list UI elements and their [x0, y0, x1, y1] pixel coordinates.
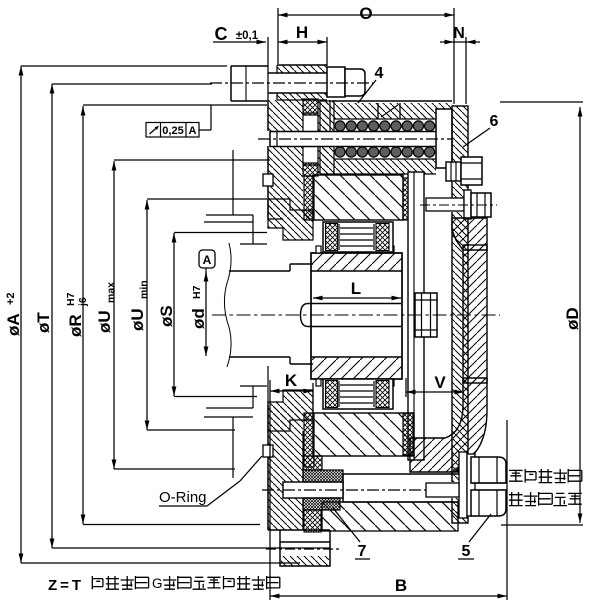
svg-text:min: min: [138, 280, 150, 299]
svg-text:4: 4: [375, 65, 384, 82]
bolt washer: [327, 67, 345, 97]
svg-text:øU: øU: [128, 308, 147, 331]
cover top flange hatched: [452, 218, 487, 250]
bolt top-right hex head: [471, 193, 491, 217]
o-ring groove top: [263, 174, 273, 186]
svg-text:L: L: [351, 279, 361, 298]
svg-text:øS: øS: [157, 305, 176, 327]
backstop rod main: [343, 474, 460, 502]
backstop rod left portion: [283, 482, 343, 498]
dim C: [213, 41, 266, 43]
svg-text:ød: ød: [189, 308, 208, 329]
pressure plate top block hatched: [313, 175, 403, 220]
backstop released text: [509, 492, 523, 506]
friction lining band upper: [303, 470, 343, 482]
block below rod hatched: [322, 502, 458, 531]
phantom max-shaft lines top: [206, 214, 253, 216]
spring rod centerline: [258, 138, 452, 140]
bolt G shank: [268, 72, 327, 74]
dim od: [205, 272, 207, 356]
dim B: [270, 595, 507, 597]
dim oA: [20, 66, 22, 563]
bolt top-right shank: [426, 198, 464, 211]
driven plate column: [408, 172, 424, 460]
friction strip left top: [304, 176, 314, 220]
phantom max-shaft lines bottom: [206, 407, 253, 409]
runout tolerance frame: [146, 123, 199, 138]
svg-text:7: 7: [358, 543, 367, 560]
svg-text:øA: øA: [4, 313, 23, 336]
seal block below rod: [304, 510, 321, 532]
svg-text:øT: øT: [34, 312, 53, 333]
flange upper block edges: [267, 103, 269, 131]
svg-text:Z = T: Z = T: [48, 577, 81, 594]
dim oT: [51, 84, 53, 548]
svg-text:O-Ring: O-Ring: [159, 489, 207, 506]
flange front face line: [267, 37, 269, 103]
hub retaining ticks: [316, 246, 321, 253]
dim oR: [82, 106, 84, 524]
cover vertical band hatched: [463, 245, 487, 383]
flange inner hub step bottom hatched: [268, 390, 313, 431]
backstop working text: [509, 470, 523, 481]
svg-text:max: max: [105, 282, 117, 303]
svg-text:G: G: [152, 576, 163, 591]
svg-text:+2: +2: [5, 292, 17, 305]
seal crosshatch mid: [303, 163, 318, 176]
needle bearing bottom: [323, 379, 393, 409]
right flange strip hatched: [452, 106, 468, 523]
svg-text:O: O: [359, 4, 372, 23]
dim N: [440, 41, 480, 43]
dim H: [278, 41, 327, 43]
dim V: [406, 391, 464, 393]
svg-text:5: 5: [462, 543, 471, 560]
backstop rod centerline: [262, 489, 505, 491]
disc centerline: [266, 548, 340, 550]
backstop hex working position: [471, 457, 506, 483]
adjuster nut: [446, 162, 461, 181]
needle bearing top: [323, 222, 393, 252]
hub bottom hatched band: [311, 357, 402, 379]
spring rod end diamond: [437, 136, 445, 143]
dim oUmax: [113, 161, 115, 469]
spring coils row 1: [335, 121, 446, 131]
friction strip left bottom: [304, 413, 314, 467]
dim oUmin: [146, 200, 148, 430]
backstop washer plates: [459, 452, 467, 518]
flange bottom step edges: [279, 530, 281, 542]
svg-text:H7: H7: [191, 285, 203, 299]
flange material over bolt hole: [277, 65, 327, 73]
svg-text:K: K: [285, 371, 298, 390]
dim oD: [579, 107, 581, 523]
svg-text:A: A: [189, 125, 197, 137]
svg-text:H: H: [296, 23, 308, 42]
keyway slot: [301, 304, 309, 327]
dim L: [313, 297, 401, 299]
bolt G head: [231, 65, 268, 67]
spring rod: [270, 132, 445, 147]
dim oS: [173, 233, 175, 396]
spring coils row 2: [335, 147, 446, 157]
svg-text:V: V: [434, 373, 446, 392]
right flange gaps: [451, 163, 469, 180]
cage left wall hatched: [320, 101, 334, 174]
svg-text:A: A: [203, 253, 212, 267]
backstop rod through flange: [426, 483, 459, 497]
svg-text:C: C: [215, 24, 228, 44]
hub top hatched band: [311, 253, 402, 271]
main centerline: [212, 314, 500, 316]
bolt nut: [345, 69, 365, 96]
o-ring groove bottom: [263, 445, 273, 457]
svg-text:H7: H7: [65, 292, 77, 306]
friction strip right top: [403, 178, 411, 220]
pin column white: [303, 113, 318, 165]
seal block bottom left: [303, 456, 322, 470]
dim K: [270, 390, 313, 392]
bolt hole disc bottom: [280, 542, 330, 566]
svg-text:±0,1: ±0,1: [236, 30, 259, 42]
cage top band hatched: [334, 103, 452, 119]
bolt top-right washer: [464, 190, 471, 219]
bolt top-right centerline: [420, 204, 497, 206]
cover bottom flange hatched: [410, 378, 487, 472]
svg-text:N: N: [453, 25, 465, 42]
bolt centerline: [210, 82, 373, 84]
flange inner hub step top hatched: [268, 199, 313, 240]
flange upper block hatched: [268, 100, 303, 131]
dim O: [278, 14, 454, 16]
backstop hex released position: [471, 490, 506, 516]
friction lining band lower: [303, 498, 340, 510]
hub outline: [311, 253, 402, 379]
shaft end hex bolt: [415, 293, 437, 337]
friction strip right bottom: [403, 413, 413, 455]
svg-text:0,25: 0,25: [162, 125, 183, 137]
svg-text:øU: øU: [95, 310, 114, 333]
shaft break line: [224, 243, 231, 367]
seal crosshatch top: [303, 99, 318, 115]
svg-text:øR: øR: [66, 314, 85, 337]
svg-text:øD: øD: [563, 307, 582, 330]
svg-text:B: B: [395, 576, 407, 595]
datum A box: [199, 250, 215, 268]
cage bottom band hatched: [334, 159, 436, 174]
adjuster knob: [461, 157, 482, 185]
svg-text:6: 6: [490, 113, 499, 130]
right flange dark corner bottom: [449, 460, 468, 472]
spring retainer plate: [436, 109, 452, 168]
cage adjustment slot marks: [377, 103, 379, 119]
pressure plate bottom block hatched: [313, 413, 414, 456]
flange lower block hatched: [268, 405, 303, 530]
shaft bore lines: [229, 270, 290, 272]
svg-text:j6: j6: [77, 297, 89, 307]
